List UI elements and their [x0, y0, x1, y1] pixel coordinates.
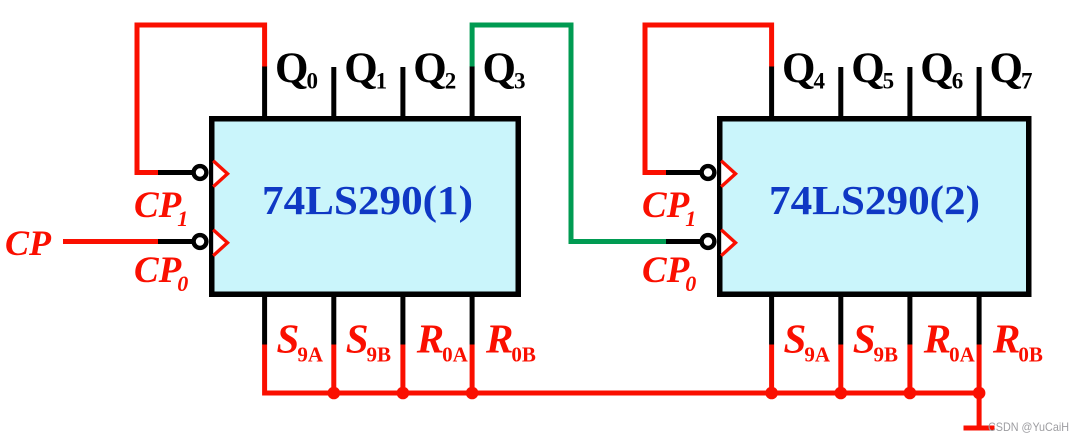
svg-text:CP0: CP0 [642, 250, 696, 296]
svg-text:74LS290(1): 74LS290(1) [262, 177, 473, 223]
svg-text:CP: CP [5, 223, 52, 263]
svg-text:CP1: CP1 [134, 185, 188, 231]
svg-text:CP1: CP1 [642, 185, 696, 231]
svg-text:CP0: CP0 [134, 250, 188, 296]
svg-text:74LS290(2): 74LS290(2) [769, 177, 980, 223]
svg-text:CSDN @YuCaiH: CSDN @YuCaiH [988, 420, 1069, 434]
